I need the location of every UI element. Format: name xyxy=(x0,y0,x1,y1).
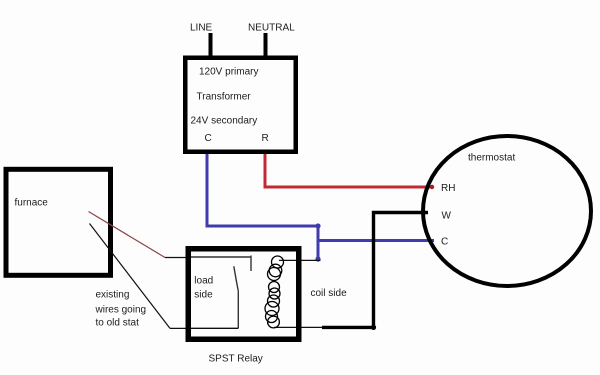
svg-text:LINE: LINE xyxy=(190,23,213,34)
svg-text:120V primary: 120V primary xyxy=(199,67,258,78)
svg-text:load: load xyxy=(194,276,213,287)
svg-text:existing: existing xyxy=(96,290,130,301)
svg-text:C: C xyxy=(441,237,448,248)
svg-text:furnace: furnace xyxy=(15,198,49,209)
svg-text:SPST Relay: SPST Relay xyxy=(209,354,263,365)
svg-text:W: W xyxy=(442,211,452,222)
svg-text:side: side xyxy=(194,289,213,300)
svg-text:Transformer: Transformer xyxy=(197,92,252,103)
svg-text:RH: RH xyxy=(441,183,455,194)
svg-text:24V secondary: 24V secondary xyxy=(191,116,258,127)
svg-text:NEUTRAL: NEUTRAL xyxy=(248,23,295,34)
svg-text:coil side: coil side xyxy=(311,288,348,299)
svg-text:to old stat: to old stat xyxy=(96,318,140,329)
svg-text:C: C xyxy=(205,133,212,144)
svg-text:wires going: wires going xyxy=(95,305,147,316)
svg-text:R: R xyxy=(262,133,269,144)
svg-text:thermostat: thermostat xyxy=(468,153,515,164)
